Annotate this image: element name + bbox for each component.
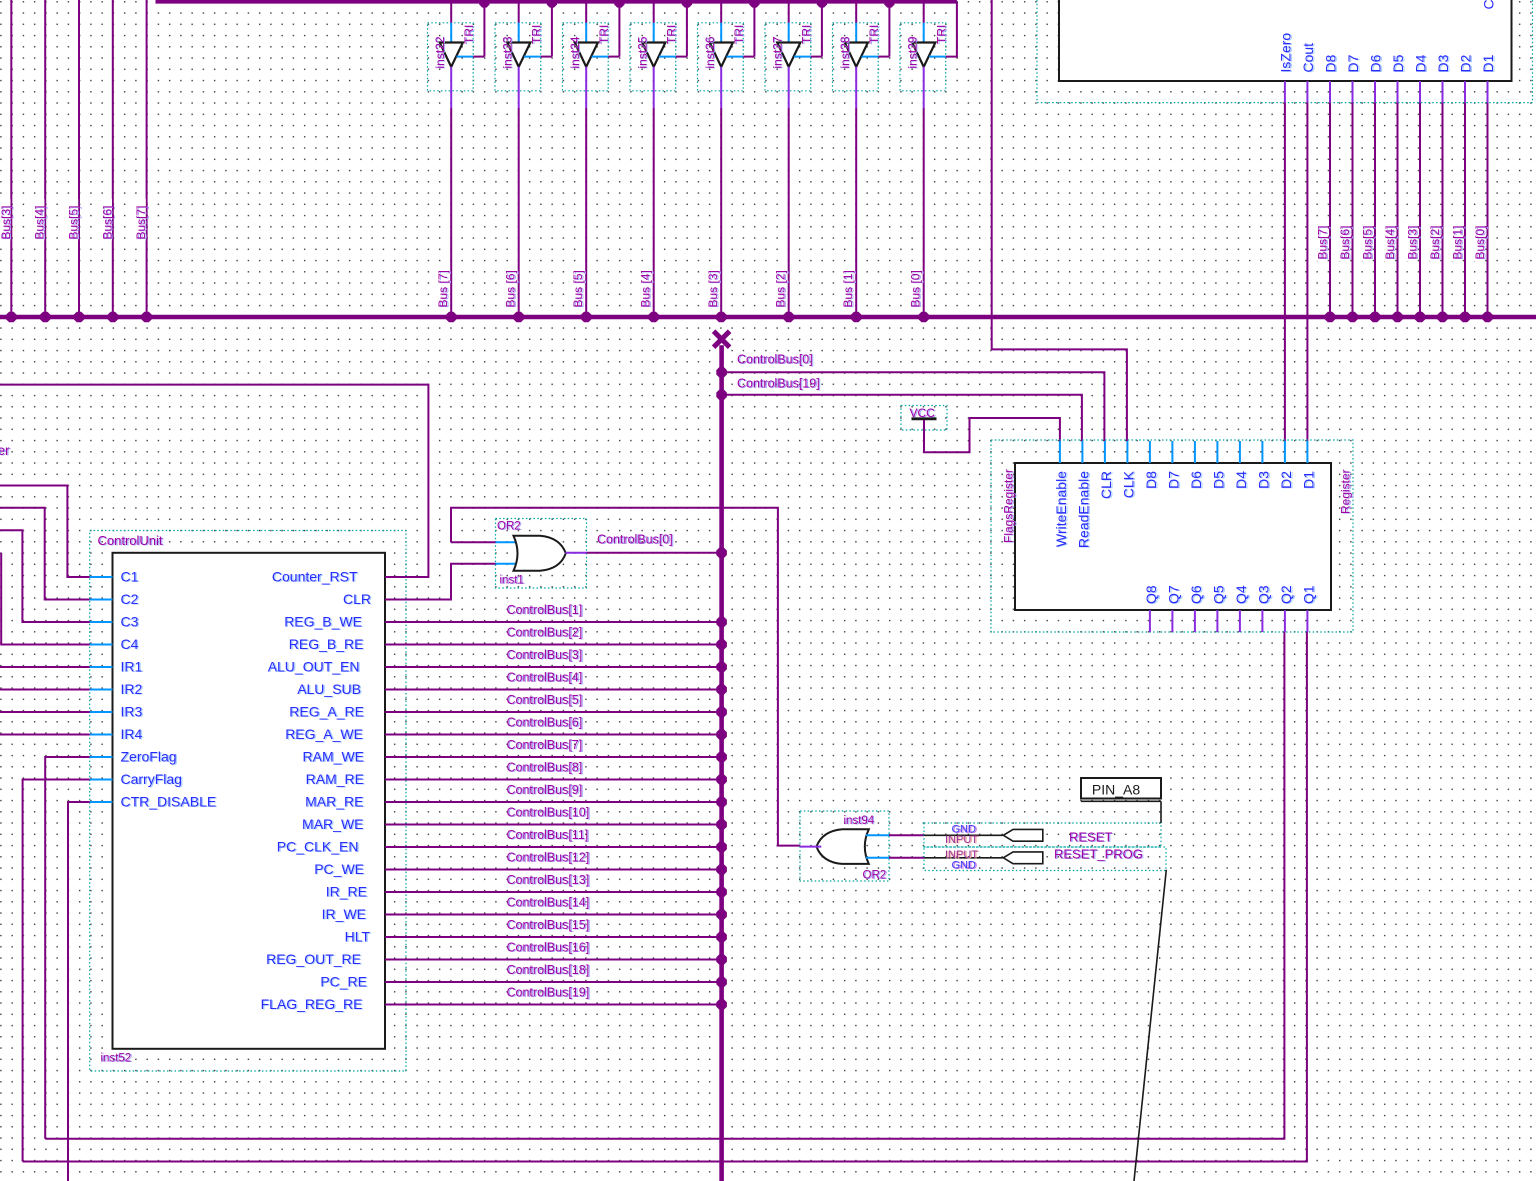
svg-text:Q2: Q2 [1278, 585, 1294, 604]
pin CLR of ControlUnit [343, 591, 372, 608]
pin Q4 of FlagsRegister [1233, 585, 1250, 632]
pin C1 of ControlUnit [90, 569, 140, 586]
wire ControlBus[14] from ControlUnit to control bus [385, 896, 727, 920]
svg-text:Cout: Cout [1300, 43, 1316, 73]
svg-text:Bus [4]: Bus [4] [639, 270, 653, 307]
svg-text:ControlBus[12]: ControlBus[12] [507, 851, 590, 865]
pin PC_WE of ControlUnit [314, 861, 365, 878]
pin D4 of U_top with wire [1404, 54, 1430, 322]
pin IR_RE of ControlUnit [326, 884, 369, 901]
svg-text:CLR: CLR [343, 591, 371, 607]
svg-text:D4: D4 [1413, 54, 1429, 72]
svg-text:Q7: Q7 [1165, 585, 1181, 604]
pin IR1 of ControlUnit [90, 659, 144, 676]
wire ControlBus[4] from ControlUnit to control bus [385, 671, 727, 695]
svg-text:ControlBus[1]: ControlBus[1] [507, 603, 583, 617]
svg-text:PC_RE: PC_RE [320, 974, 367, 990]
svg-text:Q6: Q6 [1188, 585, 1204, 604]
svg-text:ControlBus[16]: ControlBus[16] [507, 941, 590, 955]
svg-text:Bus[7]: Bus[7] [1316, 225, 1330, 259]
wire ControlBus[2] from ControlUnit to control bus [385, 626, 727, 650]
svg-text:D8: D8 [1323, 54, 1339, 72]
svg-text:TRI: TRI [800, 25, 814, 44]
wire VCC to FlagsRegister WriteEnable [924, 418, 1060, 452]
svg-text:OR2: OR2 [497, 521, 521, 533]
svg-text:Bus [0]: Bus [0] [909, 270, 923, 307]
register U2 FlagsRegister (Register) [991, 440, 1354, 632]
svg-text:Bus[5]: Bus[5] [1361, 225, 1375, 259]
pin ALU_OUT_EN of ControlUnit [268, 659, 361, 676]
svg-text:RESET: RESET [1069, 830, 1112, 845]
pin Counter_RST of ControlUnit [272, 569, 359, 586]
svg-text:Bus[7]: Bus[7] [134, 205, 148, 239]
wire ControlBus[9] from ControlUnit to control bus [385, 783, 727, 807]
pin ALU_SUB of ControlUnit [297, 681, 362, 698]
pin C4 of ControlUnit [90, 636, 140, 653]
svg-text:TRI: TRI [732, 25, 746, 44]
pin D6 of U_top with wire [1359, 54, 1385, 322]
pin D1 of FlagsRegister [1300, 441, 1317, 489]
svg-text:Bus[1]: Bus[1] [1451, 225, 1465, 259]
svg-text:Bus[4]: Bus[4] [33, 205, 47, 239]
tri-state buffer inst28 (TRI) with output wire Bus[1] [833, 0, 895, 322]
annotation line from RESET_PROG to bottom edge [1134, 870, 1166, 1181]
wire ControlBus[6] from ControlUnit to control bus [385, 716, 727, 740]
wire Cout to FlagsRegister D1 [1306, 103, 1308, 441]
pin HLT of ControlUnit [345, 929, 372, 946]
pin D8 of U_top with wire [1314, 54, 1340, 322]
svg-text:TRI: TRI [867, 25, 881, 44]
svg-text:D8: D8 [1143, 471, 1159, 489]
svg-text:D6: D6 [1368, 54, 1384, 72]
pin Q8 of FlagsRegister [1143, 585, 1160, 632]
pin D3 of U_top with wire [1426, 54, 1452, 322]
wire Q2 (ZeroFlag feedback) [45, 632, 1284, 1139]
pin CarryFlag of ControlUnit [90, 771, 184, 788]
svg-text:ControlBus[3]: ControlBus[3] [507, 648, 583, 662]
wire ZeroFlag input [45, 757, 89, 1139]
wire CarryFlag input [23, 780, 90, 1162]
tri-state buffer inst26 (TRI) with output wire Bus[3] [698, 0, 760, 322]
svg-text:ControlBus[4]: ControlBus[4] [507, 671, 583, 685]
svg-text:RESET_PROG: RESET_PROG [1054, 847, 1143, 862]
wire Bus[4] (left vertical) with label [31, 0, 51, 322]
svg-text:D3: D3 [1435, 54, 1451, 72]
pin REG_B_RE of ControlUnit [289, 636, 365, 653]
svg-text:Q8: Q8 [1143, 585, 1159, 604]
tri-state buffer inst29 (TRI) with output wire Bus[0] [900, 0, 957, 322]
svg-text:PC_WE: PC_WE [314, 861, 364, 877]
svg-text:REG_A_RE: REG_A_RE [289, 704, 364, 720]
pin PC_CLK_EN of ControlUnit [277, 839, 360, 856]
pin CLK of FlagsRegister [1120, 441, 1137, 499]
svg-text:inst27: inst27 [770, 36, 784, 68]
svg-text:inst25: inst25 [635, 36, 649, 68]
svg-text:Bus [6]: Bus [6] [504, 270, 518, 307]
pin IsZero of U_top with wire [1277, 33, 1294, 103]
pin MAR_WE of ControlUnit [302, 816, 365, 833]
svg-text:Bus[3]: Bus[3] [1406, 225, 1420, 259]
svg-text:D2: D2 [1458, 54, 1474, 72]
svg-text:PIN_A8: PIN_A8 [1092, 782, 1140, 798]
svg-text:CTR_DISABLE: CTR_DISABLE [121, 794, 217, 810]
wire ControlBus[7] from ControlUnit to control bus [385, 738, 727, 762]
tri-state buffer inst27 (TRI) with output wire Bus[2] [765, 0, 827, 322]
svg-text:ControlBus[13]: ControlBus[13] [507, 873, 590, 887]
wire ControlBus[3] from ControlUnit to control bus [385, 648, 727, 672]
pin WriteEnable of FlagsRegister [1053, 441, 1070, 548]
wire Counter_RST output [0, 385, 428, 577]
pin D7 of U_top with wire [1336, 54, 1362, 322]
wire Bus[6] (left vertical) with label [99, 0, 119, 322]
tri-state buffer inst22 (TRI) with output wire Bus[7] [428, 0, 490, 322]
svg-text:inst52: inst52 [101, 1053, 132, 1065]
svg-text:ZeroFlag: ZeroFlag [121, 749, 177, 765]
svg-text:IR1: IR1 [121, 659, 143, 675]
svg-text:D3: D3 [1255, 471, 1271, 489]
pin D3 of FlagsRegister [1255, 441, 1272, 489]
tri-state buffer inst24 (TRI) with output wire Bus[5] [563, 0, 625, 322]
svg-text:TRI: TRI [935, 25, 949, 44]
svg-text:inst24: inst24 [568, 36, 582, 68]
svg-text:inst28: inst28 [838, 36, 852, 68]
svg-text:MAR_WE: MAR_WE [302, 816, 363, 832]
svg-text:Bus [2]: Bus [2] [774, 270, 788, 307]
svg-text:RAM_WE: RAM_WE [303, 749, 364, 765]
svg-text:ControlBus[8]: ControlBus[8] [507, 761, 583, 775]
svg-text:ALU_OUT_EN: ALU_OUT_EN [268, 659, 360, 675]
svg-text:Bus[6]: Bus[6] [100, 205, 114, 239]
pin REG_OUT_RE of ControlUnit [266, 951, 362, 968]
pin C2 of ControlUnit [90, 591, 140, 608]
pin Q7 of FlagsRegister [1165, 585, 1182, 632]
control bus vertical (ControlBus net) with X endpoint marker [714, 331, 730, 1181]
pin IR2 of ControlUnit [90, 681, 144, 698]
svg-text:Bus [5]: Bus [5] [571, 270, 585, 307]
wire IR3 input [0, 711, 90, 713]
svg-text:GND: GND [952, 859, 977, 871]
svg-text:ControlUnit: ControlUnit [98, 533, 163, 548]
wire ControlBus[1] from ControlUnit to control bus [385, 603, 727, 627]
svg-text:inst26: inst26 [703, 36, 717, 68]
svg-text:IR_WE: IR_WE [322, 906, 366, 922]
pin Q2 of FlagsRegister [1278, 585, 1295, 632]
svg-text:WriteEnable: WriteEnable [1053, 471, 1069, 547]
pin location box PIN_A8 [1081, 778, 1161, 823]
svg-text:C: C [1481, 0, 1497, 10]
svg-text:ControlBus[19]: ControlBus[19] [737, 377, 820, 391]
svg-text:CLK: CLK [1120, 470, 1136, 498]
pin MAR_RE of ControlUnit [305, 794, 365, 811]
svg-text:MAR_RE: MAR_RE [305, 794, 363, 810]
pin D6 of FlagsRegister [1188, 441, 1205, 489]
wire ControlBus[18] from ControlUnit to control bus [385, 963, 727, 987]
svg-text:REG_B_RE: REG_B_RE [289, 636, 364, 652]
svg-text:HLT: HLT [345, 929, 371, 945]
power symbol VCC [901, 406, 947, 431]
svg-text:ControlBus[19]: ControlBus[19] [507, 986, 590, 1000]
partial label ...er (cut at left edge) [0, 443, 11, 459]
svg-text:Bus[2]: Bus[2] [1428, 225, 1442, 259]
svg-text:Bus [1]: Bus [1] [841, 270, 855, 307]
svg-text:ControlBus[0]: ControlBus[0] [597, 533, 673, 547]
wire C3 input [0, 530, 90, 622]
wire ControlBus[10] from ControlUnit to control bus [385, 806, 727, 830]
svg-text:Bus[5]: Bus[5] [67, 205, 81, 239]
wire C2 input [0, 508, 90, 600]
svg-text:IR4: IR4 [121, 726, 143, 742]
svg-text:Counter_RST: Counter_RST [272, 569, 358, 585]
svg-text:inst29: inst29 [905, 36, 919, 68]
svg-text:ControlBus[9]: ControlBus[9] [507, 783, 583, 797]
pin D7 of FlagsRegister [1165, 441, 1182, 489]
pin D8 of FlagsRegister [1143, 441, 1160, 489]
svg-text:D4: D4 [1233, 471, 1249, 489]
svg-text:inst1: inst1 [500, 575, 524, 587]
wire IR4 input [0, 734, 90, 736]
wire ControlBus[12] from ControlUnit to control bus [385, 851, 727, 875]
pin RAM_WE of ControlUnit [303, 749, 366, 766]
svg-text:ControlBus[0]: ControlBus[0] [737, 353, 813, 367]
pin CLR of FlagsRegister [1098, 441, 1115, 500]
svg-text:ControlBus[15]: ControlBus[15] [507, 918, 590, 932]
wire main data bus (horizontal) [0, 315, 1536, 320]
input pin RESET [924, 823, 1161, 847]
svg-text:ControlBus[11]: ControlBus[11] [507, 828, 589, 842]
svg-text:inst94: inst94 [844, 815, 875, 827]
svg-text:PC_CLK_EN: PC_CLK_EN [277, 839, 359, 855]
svg-text:C1: C1 [121, 569, 139, 585]
svg-text:D6: D6 [1188, 471, 1204, 489]
wire Q1 (CarryFlag feedback) [23, 632, 1307, 1162]
wire Bus[7] (left vertical) with label [132, 0, 152, 322]
wire Bus[5] (left vertical) with label [65, 0, 85, 322]
pin label C (cut off, top right) [1481, 0, 1497, 10]
svg-text:IsZero: IsZero [1277, 33, 1293, 73]
or-gate inst1 (OR2) with CLR input and ControlBus[0] output [385, 508, 800, 846]
svg-text:CarryFlag: CarryFlag [121, 771, 182, 787]
svg-text:ALU_SUB: ALU_SUB [297, 681, 361, 697]
svg-text:Bus [3]: Bus [3] [706, 270, 720, 307]
svg-text:inst22: inst22 [433, 36, 447, 68]
svg-text:TRI: TRI [530, 25, 544, 44]
svg-text:ControlBus[18]: ControlBus[18] [507, 963, 590, 977]
wire IR1 input [0, 666, 90, 668]
svg-text:FlagsRegister: FlagsRegister [1002, 469, 1016, 543]
svg-text:C3: C3 [121, 614, 139, 630]
svg-text:TRI: TRI [462, 25, 476, 44]
wire ControlBus[19] from ControlUnit to control bus [385, 986, 727, 1010]
svg-text:C4: C4 [121, 636, 139, 652]
svg-text:ControlBus[2]: ControlBus[2] [507, 626, 583, 640]
wire ControlBus[0] to FlagsRegister CLR [716, 353, 1104, 442]
wire ControlBus[8] from ControlUnit to control bus [385, 761, 727, 785]
svg-text:Bus[4]: Bus[4] [1383, 225, 1397, 259]
pin REG_B_WE of ControlUnit [284, 614, 363, 631]
pin Q3 of FlagsRegister [1255, 585, 1272, 632]
pin ReadEnable of FlagsRegister [1075, 441, 1092, 549]
pin Cout of U_top with wire [1300, 43, 1317, 103]
svg-text:D5: D5 [1390, 54, 1406, 72]
svg-text:REG_B_WE: REG_B_WE [284, 614, 362, 630]
svg-text:C2: C2 [121, 591, 139, 607]
pin PC_RE of ControlUnit [320, 974, 368, 991]
svg-text:Bus [7]: Bus [7] [436, 270, 450, 307]
pin D2 of U_top with wire [1449, 54, 1475, 322]
wire ControlBus[13] from ControlUnit to control bus [385, 873, 727, 897]
wire IR2 input [0, 689, 90, 691]
svg-text:ControlBus[10]: ControlBus[10] [507, 806, 590, 820]
svg-text:D5: D5 [1210, 471, 1226, 489]
wire ControlBus[16] from ControlUnit to control bus [385, 941, 727, 965]
svg-text:REG_OUT_RE: REG_OUT_RE [266, 951, 361, 967]
tri-state buffer inst25 (TRI) with output wire Bus[4] [630, 0, 692, 322]
svg-text:Bus[6]: Bus[6] [1338, 225, 1352, 259]
svg-text:D1: D1 [1480, 54, 1496, 72]
svg-text:inst23: inst23 [500, 36, 514, 68]
svg-text:D2: D2 [1278, 471, 1294, 489]
pin C3 of ControlUnit [90, 614, 140, 631]
svg-text:ControlBus[7]: ControlBus[7] [507, 738, 583, 752]
svg-text:Register: Register [1339, 469, 1353, 514]
pin Q5 of FlagsRegister [1210, 585, 1227, 632]
svg-text:ControlBus[5]: ControlBus[5] [507, 693, 583, 707]
svg-text:Q3: Q3 [1255, 585, 1271, 604]
pin Q1 of FlagsRegister [1300, 585, 1317, 632]
wire tri-state enable net (top) [156, 0, 957, 4]
or-gate inst94 (OR2, mirrored) combining RESET inputs [800, 811, 924, 882]
pin REG_A_WE of ControlUnit [285, 726, 364, 743]
pin CTR_DISABLE of ControlUnit [90, 794, 218, 811]
svg-text:TRI: TRI [597, 25, 611, 44]
pin IR4 of ControlUnit [90, 726, 144, 743]
pin RAM_RE of ControlUnit [306, 771, 366, 788]
input pin RESET_PROG [924, 847, 1166, 872]
pin D5 of U_top with wire [1381, 54, 1407, 322]
svg-text:Q5: Q5 [1210, 585, 1226, 604]
wire CLK net (from top to FlagsRegister CLK) [992, 0, 1127, 441]
pin Q6 of FlagsRegister [1188, 585, 1205, 632]
svg-text:CLR: CLR [1098, 471, 1114, 499]
pin D4 of FlagsRegister [1233, 441, 1250, 489]
wire ControlBus[15] from ControlUnit to control bus [385, 918, 727, 942]
svg-text:OR2: OR2 [863, 870, 887, 882]
svg-text:D7: D7 [1165, 471, 1181, 489]
pin REG_A_RE of ControlUnit [289, 704, 365, 721]
pin IR_WE of ControlUnit [322, 906, 368, 923]
component U_top (counter/ALU block, partially cut at top) [1037, 0, 1533, 103]
svg-text:D7: D7 [1345, 54, 1361, 72]
svg-text:ControlBus[6]: ControlBus[6] [507, 716, 583, 730]
pin IR3 of ControlUnit [90, 704, 144, 721]
svg-text:D1: D1 [1300, 471, 1316, 489]
wire CTR_DISABLE input [68, 802, 90, 1181]
pin D2 of FlagsRegister [1278, 441, 1295, 489]
svg-text:IR_RE: IR_RE [326, 884, 367, 900]
svg-text:er: er [0, 443, 10, 458]
svg-text:ControlBus[14]: ControlBus[14] [507, 896, 590, 910]
wire C4 input [1, 553, 90, 645]
wire Bus[3] (left vertical) with label [0, 0, 17, 322]
pin D1 of U_top with wire [1471, 54, 1497, 322]
wire ControlBus[5] from ControlUnit to control bus [385, 693, 727, 717]
svg-text:RAM_RE: RAM_RE [306, 771, 364, 787]
svg-text:Bus[0]: Bus[0] [1473, 225, 1487, 259]
component inst52 ControlUnit [90, 531, 406, 1072]
wire IsZero to FlagsRegister D2 [1284, 103, 1286, 441]
svg-text:IR3: IR3 [121, 704, 143, 720]
pin FLAG_REG_RE of ControlUnit [261, 996, 364, 1013]
wire ControlBus[19] to FlagsRegister ReadEnable [716, 377, 1082, 442]
svg-text:IR2: IR2 [121, 681, 143, 697]
svg-text:Q4: Q4 [1233, 585, 1249, 604]
svg-text:Q1: Q1 [1300, 585, 1316, 604]
svg-text:REG_A_WE: REG_A_WE [285, 726, 363, 742]
svg-text:FLAG_REG_RE: FLAG_REG_RE [261, 996, 363, 1012]
svg-text:ReadEnable: ReadEnable [1075, 471, 1091, 548]
tri-state buffer inst23 (TRI) with output wire Bus[6] [495, 0, 557, 322]
wire ControlBus[11] from ControlUnit to control bus [385, 828, 727, 852]
svg-text:INPUT: INPUT [945, 834, 978, 846]
wire C1 input [0, 486, 90, 578]
svg-text:TRI: TRI [665, 25, 679, 44]
svg-text:Bus[3]: Bus[3] [0, 205, 13, 239]
pin ZeroFlag of ControlUnit [90, 749, 178, 766]
pin D5 of FlagsRegister [1210, 441, 1227, 489]
